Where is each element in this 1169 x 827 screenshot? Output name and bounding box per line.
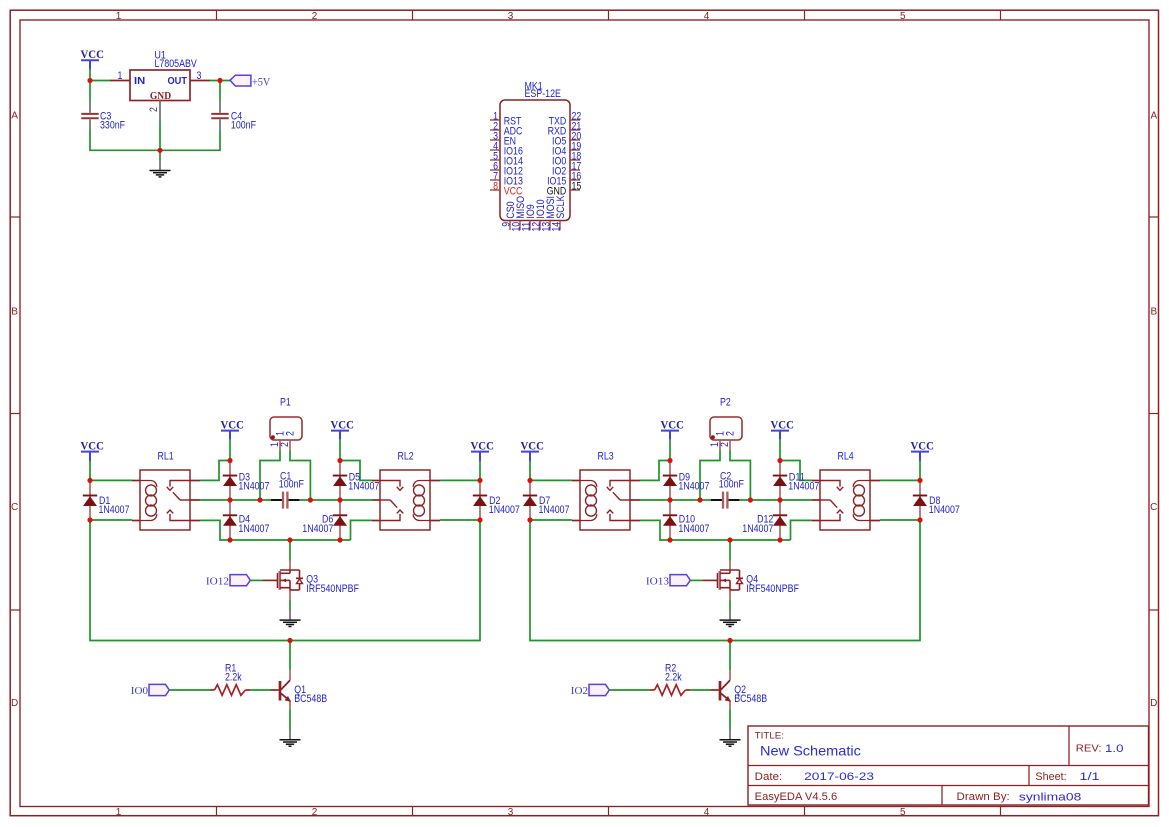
svg-text:1N4007: 1N4007 <box>539 504 570 516</box>
wire <box>200 520 351 540</box>
MK1 pin 6 IO12 <box>490 169 500 171</box>
junction <box>917 517 922 522</box>
resistor R1 2.2k <box>210 689 215 691</box>
svg-text:2017-06-23: 2017-06-23 <box>804 771 874 783</box>
P1 pin 1 <box>279 440 281 451</box>
MK1 pin 17 IO2 <box>570 169 580 171</box>
svg-text:1N4007: 1N4007 <box>348 481 379 493</box>
power flag VCC (D7) <box>521 451 539 453</box>
power flag VCC (D1) <box>81 451 99 453</box>
svg-text:A: A <box>1150 110 1157 121</box>
transistor Q2 BC548B <box>729 670 731 680</box>
MK1 pin 16 IO15 <box>570 179 580 181</box>
wire <box>880 479 920 481</box>
header P1 <box>270 417 302 440</box>
power flag VCC (D2) <box>471 451 489 453</box>
junction <box>87 478 92 483</box>
junction <box>217 78 222 83</box>
MK1 pin 8 VCC <box>490 189 500 191</box>
wire <box>250 579 262 581</box>
junction <box>287 638 292 643</box>
svg-text:100nF: 100nF <box>719 479 744 491</box>
MK1 pin 12 IO10 <box>539 221 541 231</box>
svg-text:VCC: VCC <box>80 438 104 452</box>
svg-text:1N4007: 1N4007 <box>929 504 960 516</box>
diode D4 1N4007 <box>229 500 231 540</box>
wire <box>729 641 731 671</box>
wire <box>780 461 812 481</box>
svg-text:D: D <box>11 698 18 709</box>
svg-text:VCC: VCC <box>910 438 934 452</box>
svg-text:1N4007: 1N4007 <box>238 523 269 535</box>
wire <box>530 519 572 521</box>
svg-text:3: 3 <box>508 807 514 818</box>
svg-text:2: 2 <box>312 11 318 22</box>
junction <box>157 148 162 153</box>
svg-text:100nF: 100nF <box>231 119 256 131</box>
junction <box>697 497 702 502</box>
wire <box>219 81 221 101</box>
regulator U1 L7805ABV <box>130 70 190 101</box>
junction <box>917 478 922 483</box>
svg-text:TITLE:: TITLE: <box>755 730 784 741</box>
wire <box>90 519 132 521</box>
svg-text:Date:: Date: <box>755 771 783 783</box>
wire <box>640 499 711 501</box>
svg-text:4: 4 <box>704 11 710 22</box>
junction <box>667 458 672 463</box>
wire <box>160 131 220 151</box>
P2 pin 2 <box>729 440 731 451</box>
svg-text:1N4007: 1N4007 <box>489 504 520 516</box>
diode D5 1N4007 <box>339 461 341 501</box>
junction <box>527 517 532 522</box>
junction <box>257 497 262 502</box>
relay RL1 <box>140 470 190 530</box>
svg-text:REV:: REV: <box>1076 743 1102 754</box>
svg-text:2: 2 <box>725 431 737 436</box>
MK1 pin 18 IO0 <box>570 159 580 161</box>
diode D1 1N4007 <box>89 480 91 520</box>
wire <box>440 479 480 481</box>
junction <box>477 478 482 483</box>
wire <box>640 461 670 481</box>
MK1 pin 7 IO13 <box>490 179 500 181</box>
svg-text:C: C <box>11 502 18 513</box>
wire <box>289 641 291 671</box>
power flag VCC (D5) <box>331 430 349 432</box>
svg-text:VCC: VCC <box>520 438 544 452</box>
junction <box>777 537 782 542</box>
svg-text:B: B <box>1150 306 1157 317</box>
svg-text:IO0: IO0 <box>131 685 149 697</box>
svg-text:1.0: 1.0 <box>1105 743 1124 755</box>
svg-text:2.2k: 2.2k <box>225 672 242 684</box>
P1 pin 2 <box>289 440 291 451</box>
wire <box>640 520 791 540</box>
diode D8 1N4007 <box>919 480 921 520</box>
net flag IO13 <box>670 575 690 586</box>
MK1 pin 14 SCLK <box>559 221 561 231</box>
junction <box>287 537 292 542</box>
svg-text:P2: P2 <box>720 396 731 408</box>
svg-text:2: 2 <box>279 442 291 447</box>
P2 pin 1 <box>719 440 721 451</box>
U1 pin 2 <box>159 101 161 122</box>
wire <box>89 81 91 101</box>
wire <box>289 710 291 731</box>
svg-text:+5V: +5V <box>252 76 271 88</box>
diode D3 1N4007 <box>229 461 231 501</box>
svg-text:1N4007: 1N4007 <box>788 481 819 493</box>
wire <box>290 451 310 501</box>
junction <box>87 78 92 83</box>
wire <box>90 479 132 481</box>
svg-text:RL4: RL4 <box>838 450 854 462</box>
wire <box>90 131 160 151</box>
svg-text:OUT: OUT <box>168 76 188 87</box>
wire <box>919 461 921 480</box>
svg-text:VCC: VCC <box>470 438 494 452</box>
wire <box>289 540 291 561</box>
wire <box>729 710 731 731</box>
junction <box>527 478 532 483</box>
MK1 pin 10 MISO <box>519 221 521 231</box>
wire <box>90 80 110 82</box>
header P2 <box>710 417 742 440</box>
wire <box>530 479 572 481</box>
wire <box>351 520 373 540</box>
MK1 pin 20 IO5 <box>570 139 580 141</box>
svg-text:1: 1 <box>118 70 123 82</box>
wire <box>89 461 91 480</box>
svg-text:IO2: IO2 <box>571 685 588 697</box>
diode D2 1N4007 <box>479 480 481 520</box>
transistor Q3 IRF540NPBF <box>289 561 291 571</box>
wire <box>229 440 231 461</box>
svg-text:2: 2 <box>719 442 731 447</box>
wire <box>169 689 210 691</box>
MK1 pin 22 TXD <box>570 119 580 121</box>
svg-text:SCLK: SCLK <box>555 195 567 219</box>
svg-text:2.2k: 2.2k <box>665 672 682 684</box>
wire <box>440 519 480 521</box>
wire <box>700 451 720 501</box>
svg-text:BC548B: BC548B <box>294 693 327 705</box>
wire <box>340 461 372 481</box>
svg-text:1N4007: 1N4007 <box>678 481 709 493</box>
svg-text:1N4007: 1N4007 <box>238 481 269 493</box>
svg-text:5: 5 <box>900 807 906 818</box>
wire <box>729 600 731 611</box>
svg-text:1/1: 1/1 <box>1079 771 1099 783</box>
svg-text:A: A <box>11 110 18 121</box>
svg-text:New Schematic: New Schematic <box>760 743 861 758</box>
MK1 pin 4 IO16 <box>490 149 500 151</box>
junction <box>667 537 672 542</box>
svg-text:1N4007: 1N4007 <box>742 523 773 535</box>
svg-text:1N4007: 1N4007 <box>678 523 709 535</box>
junction <box>227 537 232 542</box>
junction <box>727 638 732 643</box>
MK1 pin 1 RST <box>490 119 500 121</box>
diode D6 1N4007 <box>339 500 341 540</box>
wire <box>690 689 711 691</box>
diode D9 1N4007 <box>669 461 671 501</box>
svg-text:IRF540NPBF: IRF540NPBF <box>306 583 359 595</box>
svg-text:4: 4 <box>704 807 710 818</box>
svg-text:RL2: RL2 <box>398 450 414 462</box>
junction <box>477 517 482 522</box>
wire <box>791 520 813 540</box>
diode D11 1N4007 <box>779 461 781 501</box>
wire <box>880 519 920 521</box>
svg-text:VCC: VCC <box>330 417 354 431</box>
svg-text:synlima08: synlima08 <box>1019 791 1081 803</box>
wire <box>260 451 280 501</box>
wire <box>89 69 91 81</box>
power flag VCC (D11) <box>771 430 789 432</box>
wire <box>729 540 731 561</box>
svg-text:Drawn By:: Drawn By: <box>957 791 1010 803</box>
svg-text:L7805ABV: L7805ABV <box>155 58 198 70</box>
resistor R2 2.2k <box>650 689 655 691</box>
net flag IO0 <box>149 684 169 695</box>
title block <box>748 726 1149 805</box>
MK1 pin 9 CS0 <box>509 221 511 231</box>
svg-text:3: 3 <box>197 70 202 82</box>
junction <box>777 497 782 502</box>
svg-text:3: 3 <box>508 11 514 22</box>
wire <box>90 520 480 641</box>
MK1 pin 5 IO14 <box>490 159 500 161</box>
junction <box>777 458 782 463</box>
power flag +5V <box>230 75 251 86</box>
svg-text:1: 1 <box>116 11 122 22</box>
diode D12 1N4007 <box>779 500 781 540</box>
module MK1 ESP-12E <box>500 100 570 221</box>
diode D10 1N4007 <box>669 500 671 540</box>
junction <box>748 497 753 502</box>
junction <box>87 517 92 522</box>
capacitor C2 100nF <box>711 499 723 501</box>
power flag VCC (D9) <box>661 430 679 432</box>
U1 pin 3 <box>190 80 210 82</box>
U1 pin 1 <box>110 80 130 82</box>
svg-text:5: 5 <box>900 11 906 22</box>
svg-text:B: B <box>11 306 18 317</box>
svg-text:VCC: VCC <box>80 47 104 61</box>
svg-text:IRF540NPBF: IRF540NPBF <box>746 583 799 595</box>
wire <box>690 579 702 581</box>
wire <box>779 440 781 461</box>
transistor Q1 BC548B <box>289 670 291 680</box>
wire <box>299 499 372 501</box>
svg-text:100nF: 100nF <box>279 479 304 491</box>
wire <box>289 600 291 611</box>
wire <box>210 80 230 82</box>
svg-text:Sheet:: Sheet: <box>1035 771 1066 783</box>
MK1 pin 2 ADC <box>490 129 500 131</box>
svg-text:330nF: 330nF <box>100 119 125 131</box>
transistor Q4 IRF540NPBF <box>729 561 731 571</box>
svg-text:D: D <box>1150 698 1157 709</box>
wire <box>739 499 812 501</box>
junction <box>227 458 232 463</box>
MK1 pin 11 IO9 <box>529 221 531 231</box>
wire <box>530 520 920 641</box>
junction <box>337 537 342 542</box>
MK1 pin 15 GND <box>570 189 580 191</box>
power flag VCC (D8) <box>911 451 929 453</box>
wire <box>200 461 230 481</box>
wire <box>159 121 161 161</box>
wire <box>479 461 481 480</box>
junction <box>727 537 732 542</box>
power flag VCC (D3) <box>221 430 239 432</box>
svg-text:2: 2 <box>148 107 160 112</box>
junction <box>227 497 232 502</box>
relay RL4 <box>820 470 870 530</box>
svg-text:P1: P1 <box>280 396 291 408</box>
svg-text:RL3: RL3 <box>598 450 614 462</box>
junction <box>308 497 313 502</box>
svg-text:IO12: IO12 <box>206 575 229 587</box>
svg-text:ESP-12E: ESP-12E <box>525 88 561 100</box>
svg-text:VCC: VCC <box>660 417 684 431</box>
svg-text:GND: GND <box>150 90 171 102</box>
wire <box>730 451 750 501</box>
junction <box>667 497 672 502</box>
relay RL3 <box>580 470 630 530</box>
wire <box>200 499 271 501</box>
net flag IO12 <box>230 575 250 586</box>
junction <box>337 458 342 463</box>
svg-text:C: C <box>1150 502 1157 513</box>
svg-text:IO13: IO13 <box>646 575 670 587</box>
diode D7 1N4007 <box>529 480 531 520</box>
capacitor C1 100nF <box>271 499 283 501</box>
svg-text:RL1: RL1 <box>158 450 174 462</box>
svg-text:1: 1 <box>116 807 122 818</box>
svg-text:2: 2 <box>312 807 318 818</box>
svg-text:IN: IN <box>134 76 145 87</box>
svg-text:EasyEDA V4.5.6: EasyEDA V4.5.6 <box>755 791 838 803</box>
svg-text:1N4007: 1N4007 <box>302 523 333 535</box>
wire <box>339 440 341 461</box>
ground (U1) <box>159 161 161 171</box>
svg-text:8: 8 <box>493 180 498 192</box>
wire <box>250 689 271 691</box>
MK1 pin 3 EN <box>490 139 500 141</box>
wire <box>609 689 650 691</box>
MK1 pin 13 MOSI <box>549 221 551 231</box>
svg-text:VCC: VCC <box>504 185 523 197</box>
svg-text:1N4007: 1N4007 <box>99 504 130 516</box>
net flag IO2 <box>589 684 609 695</box>
svg-text:2: 2 <box>285 431 297 436</box>
svg-text:VCC: VCC <box>220 417 244 431</box>
junction <box>337 497 342 502</box>
wire <box>529 461 531 480</box>
svg-text:BC548B: BC548B <box>734 693 767 705</box>
MK1 pin 21 RXD <box>570 129 580 131</box>
wire <box>669 440 671 461</box>
svg-text:15: 15 <box>572 180 582 192</box>
power flag VCC (U1 input) <box>81 59 99 61</box>
svg-text:14: 14 <box>550 222 562 232</box>
MK1 pin 19 IO4 <box>570 149 580 151</box>
svg-text:VCC: VCC <box>770 417 794 431</box>
relay RL2 <box>380 470 430 530</box>
